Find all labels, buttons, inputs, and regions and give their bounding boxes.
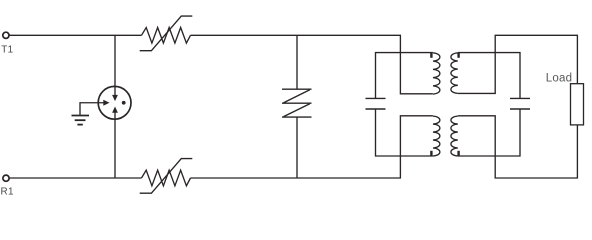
gas discharge tube G1 arrow up bbox=[112, 107, 118, 113]
transformer T secondary upper winding L3 bbox=[451, 53, 460, 94]
wire protector top lead bbox=[296, 35, 298, 89]
wire ground branch bbox=[80, 103, 104, 115]
svg-text:T1: T1 bbox=[1, 45, 13, 56]
wire ring rail left bbox=[10, 177, 142, 179]
protector S1 middle plate bbox=[282, 102, 312, 104]
gas discharge tube G1 circle bbox=[98, 86, 131, 119]
capacitor C1 top plate bbox=[366, 97, 386, 99]
svg-text:Load: Load bbox=[546, 73, 572, 85]
wire tip rail left bbox=[9, 34, 141, 36]
svg-text:R1: R1 bbox=[1, 187, 14, 198]
transformer T primary upper winding L1 bbox=[430, 53, 440, 94]
varistor RV1 zigzag bbox=[142, 28, 191, 44]
transformer T secondary lower winding L4 bbox=[451, 116, 460, 156]
terminal T1 bbox=[3, 32, 9, 38]
capacitor C2 bottom plate bbox=[510, 108, 530, 110]
protector S1 lower diagonal bbox=[284, 104, 310, 117]
wire ring rail right bbox=[191, 177, 402, 179]
gas discharge tube G1 arrow right bbox=[103, 100, 109, 106]
ground bbox=[72, 116, 90, 125]
wire primary cap top lead bbox=[376, 53, 433, 99]
wire secondary bottom to load bbox=[458, 116, 578, 178]
wire primary cap bottom lead bbox=[376, 109, 433, 156]
wire GDT bottom branch bbox=[114, 112, 116, 178]
wire secondary cap top lead bbox=[458, 53, 520, 99]
transformer T primary lower winding L2 bbox=[430, 116, 440, 156]
resistor Load bbox=[571, 84, 584, 125]
protector S1 upper diagonal bbox=[284, 90, 310, 103]
capacitor C2 top plate bbox=[510, 97, 530, 99]
wire secondary cap bottom lead bbox=[458, 109, 520, 156]
wire tip to primary top bbox=[400, 35, 433, 94]
protector S1 top plate bbox=[282, 88, 312, 90]
terminal R1 bbox=[3, 175, 9, 181]
wire protector bottom lead bbox=[296, 117, 298, 178]
wire GDT top branch bbox=[114, 35, 116, 95]
wire secondary top to load bbox=[458, 35, 578, 93]
protector S1 bottom plate bbox=[282, 116, 312, 118]
gas discharge tube G1 arrow down bbox=[112, 95, 118, 101]
wire ring to primary bottom bbox=[400, 116, 433, 178]
varistor RV2 zigzag bbox=[142, 170, 191, 186]
gas discharge tube G1 electrode dot bbox=[122, 101, 126, 105]
capacitor C1 bottom plate bbox=[366, 108, 386, 110]
wire tip rail right bbox=[191, 34, 402, 36]
varistor RV2 diagonal strike bbox=[140, 159, 193, 194]
varistor RV1 diagonal strike bbox=[140, 16, 193, 51]
